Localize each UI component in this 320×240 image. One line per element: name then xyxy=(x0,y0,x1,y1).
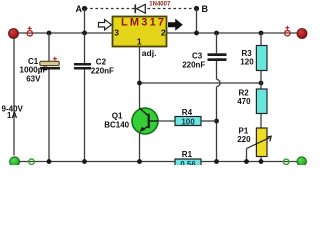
input rating label xyxy=(2,104,24,120)
svg-text:100: 100 xyxy=(181,117,195,126)
svg-text:120: 120 xyxy=(240,57,254,66)
resistor R2 xyxy=(237,83,267,128)
svg-text:adj.: adj. xyxy=(142,48,157,58)
wire: input rail xyxy=(14,32,113,34)
output polarity ring + xyxy=(285,26,290,36)
node B xyxy=(194,4,209,14)
wire: node A down to input rail xyxy=(84,9,86,34)
svg-text:R1: R1 xyxy=(182,150,193,159)
junction: R3/R2 node xyxy=(259,81,264,86)
svg-text:1000µF: 1000µF xyxy=(19,65,47,74)
svg-text:C2: C2 xyxy=(96,58,107,67)
svg-text:BC140: BC140 xyxy=(104,120,129,129)
junction: input rail / C2 / node A xyxy=(82,31,87,36)
wire: C3 down to hop xyxy=(216,61,218,79)
wire hop over adj wire xyxy=(217,79,221,86)
node A xyxy=(76,4,88,14)
junction: bottom rail / P1 wiper xyxy=(244,159,249,164)
wire: Q1 emitter to bottom rail xyxy=(139,133,141,162)
junction: bottom rail / C2 xyxy=(82,159,87,164)
svg-text:220nF: 220nF xyxy=(182,61,205,70)
potentiometer P1 xyxy=(237,127,271,162)
junction: adj wire / collector xyxy=(137,81,142,86)
junction: bottom rail / C3 column xyxy=(214,159,219,164)
svg-text:63V: 63V xyxy=(26,75,41,84)
svg-text:2: 2 xyxy=(161,27,166,37)
svg-text:B: B xyxy=(202,4,209,14)
junction: bottom rail / C1 xyxy=(47,159,52,164)
wire: node B down to output rail xyxy=(196,9,198,34)
svg-text:0.56: 0.56 xyxy=(180,160,196,165)
junction: output rail / node B xyxy=(194,31,199,36)
junction: R4 / C3 column xyxy=(214,119,219,124)
small green ring (bottom left) xyxy=(29,159,34,164)
resistor R1 (current sense, on bottom rail) xyxy=(175,150,201,169)
transistor Q1 BC140 xyxy=(104,108,158,134)
svg-text:220nF: 220nF xyxy=(91,67,114,76)
wire: dashed link A to B xyxy=(85,8,197,10)
wire: hop down to R4 node and bottom rail xyxy=(216,87,218,162)
wire: output rail xyxy=(167,32,303,34)
diode D1 1N4007 xyxy=(135,2,171,14)
resistor R4 xyxy=(158,108,217,126)
svg-text:1N4007: 1N4007 xyxy=(149,2,171,8)
junction: input rail / C1 xyxy=(47,31,52,36)
green output terminal (bottom right) xyxy=(297,157,307,167)
svg-text:R4: R4 xyxy=(182,108,193,117)
wire: left input column xyxy=(13,38,15,156)
capacitor C3 xyxy=(182,51,226,69)
capacitor C1 (electrolytic) xyxy=(19,33,60,162)
red input terminal xyxy=(9,29,19,39)
capacitor C3 branch wire (top) xyxy=(216,33,218,53)
junction: output rail / C3 branch xyxy=(214,31,219,36)
wire: adj network horizontal xyxy=(140,82,262,84)
svg-text:3: 3 xyxy=(114,27,119,37)
junction: bottom rail / P1 bottom xyxy=(259,159,264,164)
svg-text:A: A xyxy=(76,4,83,14)
input polarity ring + xyxy=(27,26,32,36)
capacitor C2 xyxy=(74,33,114,162)
green input terminal (bottom left) xyxy=(10,157,20,167)
wire: LM317 adj pin down xyxy=(139,47,141,110)
svg-text:LM317: LM317 xyxy=(121,17,164,29)
svg-text:1A: 1A xyxy=(7,111,17,120)
junction: bottom rail / Q1 emitter xyxy=(137,159,142,164)
svg-text:C3: C3 xyxy=(192,51,203,60)
small green ring (bottom right) xyxy=(284,159,289,164)
wire: bottom rail xyxy=(15,161,302,163)
red output terminal xyxy=(297,29,307,39)
black arrow (output direction) xyxy=(168,19,183,31)
op-amp U1 LM317 regulator box xyxy=(113,17,167,47)
white arrow (input direction) xyxy=(99,20,112,30)
junction: output rail / R3 xyxy=(259,31,264,36)
svg-text:470: 470 xyxy=(237,97,251,106)
svg-text:1: 1 xyxy=(137,37,142,47)
resistor R3 xyxy=(240,33,267,83)
svg-text:220: 220 xyxy=(237,135,251,144)
